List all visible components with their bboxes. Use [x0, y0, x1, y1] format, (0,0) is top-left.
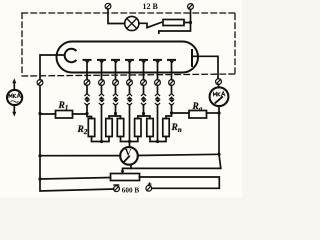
svg-text:12 В: 12 В: [143, 2, 159, 11]
svg-text:V: V: [125, 147, 132, 157]
svg-text:600 В: 600 В: [122, 187, 140, 195]
